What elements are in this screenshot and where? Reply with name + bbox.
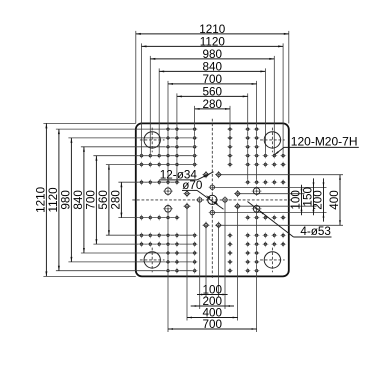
extension lines for bottom dimensions <box>168 200 257 332</box>
tie-bar hole left-top <box>140 128 165 153</box>
dia-34 hole 10 <box>215 171 222 178</box>
dimension 560 top <box>177 85 248 98</box>
dimension 400 right <box>328 175 341 226</box>
tie-bar hole left-bottom <box>140 248 165 273</box>
dimension 280 top <box>195 98 230 111</box>
svg-text:700: 700 <box>203 318 223 331</box>
label dia70 with leader <box>182 179 224 209</box>
svg-text:560: 560 <box>97 190 110 210</box>
svg-text:840: 840 <box>72 190 85 210</box>
dimension 1120 top <box>142 35 284 48</box>
svg-text:840: 840 <box>203 60 223 73</box>
dia-34 hole 9 <box>202 171 209 178</box>
label 12-dia34 with leader <box>160 169 214 182</box>
dimension 1120 left <box>47 129 60 271</box>
svg-text:280: 280 <box>203 98 223 111</box>
dia-34 hole 2 <box>221 196 228 203</box>
dimension 700 top <box>168 73 257 86</box>
label 120-M20-7H with leader <box>274 135 359 155</box>
dia-53 hole 1 <box>163 186 173 196</box>
dimension 150 right <box>302 178 315 215</box>
dia-34 hole 5 <box>183 190 190 197</box>
dia-34 hole 3 <box>209 184 216 191</box>
svg-text:400: 400 <box>328 190 341 210</box>
M20 tapped hole group, right-top quadrant <box>227 126 286 185</box>
svg-text:4-ø53: 4-ø53 <box>300 225 331 238</box>
dia-53 hole 2 <box>163 204 173 214</box>
dia-34 hole 12 <box>215 222 222 229</box>
dia-53 hole 3 <box>252 186 262 196</box>
dia-34 hole 11 <box>202 222 209 229</box>
dimension 1210 left <box>35 123 48 276</box>
dia-34 hole 6 <box>234 190 241 197</box>
platen plate outline <box>136 123 289 276</box>
tie-bar hole right-bottom <box>260 248 285 273</box>
dia-34 hole 8 <box>234 203 241 210</box>
dimension 200 right <box>312 178 325 221</box>
svg-text:700: 700 <box>203 73 223 86</box>
dimension 560 left <box>97 165 110 236</box>
dimension 980 top <box>150 48 274 61</box>
svg-text:980: 980 <box>60 190 73 210</box>
dimension 1210 top <box>136 23 289 36</box>
svg-text:1210: 1210 <box>35 186 48 213</box>
svg-text:280: 280 <box>110 190 123 210</box>
vertical centerline <box>211 119 213 280</box>
dimension 280 left <box>110 182 123 217</box>
dimension 840 top <box>159 60 265 73</box>
M20 tapped hole group, left-bottom quadrant <box>139 215 198 274</box>
dia-53 hole 4 <box>252 204 262 214</box>
M20 tapped hole group, right-bottom quadrant <box>227 215 286 274</box>
svg-text:1120: 1120 <box>200 35 226 48</box>
dia-34 hole 1 <box>196 196 203 203</box>
dimension 400 bottom <box>187 307 238 320</box>
svg-text:980: 980 <box>203 48 223 61</box>
dimension 700 left <box>85 156 98 244</box>
label 4-dia53 with leader <box>248 202 332 239</box>
dia-34 hole 4 <box>209 209 216 216</box>
svg-text:700: 700 <box>85 190 98 210</box>
extension lines for top dimensions <box>136 31 289 182</box>
dimension 200 bottom <box>191 295 234 308</box>
dimension 100 right <box>290 185 303 216</box>
svg-text:120-M20-7H: 120-M20-7H <box>291 135 358 149</box>
tie-bar hole right-top <box>260 128 285 153</box>
dia-34 hole 7 <box>183 203 190 210</box>
svg-text:1120: 1120 <box>47 187 60 213</box>
dimension 840 left <box>72 147 85 253</box>
svg-text:560: 560 <box>203 85 223 98</box>
extension lines for left dimensions <box>43 123 194 276</box>
dimension 700 bottom <box>168 318 257 331</box>
M20 tapped hole group, left-top quadrant <box>139 126 198 185</box>
svg-text:200: 200 <box>312 190 325 210</box>
dimension 980 left <box>60 138 73 262</box>
dimension 100 bottom <box>197 284 228 297</box>
svg-text:1210: 1210 <box>199 23 226 36</box>
dia-70 center hole <box>208 195 217 204</box>
extension lines for right dimensions <box>212 175 343 226</box>
horizontal centerline <box>132 199 291 201</box>
